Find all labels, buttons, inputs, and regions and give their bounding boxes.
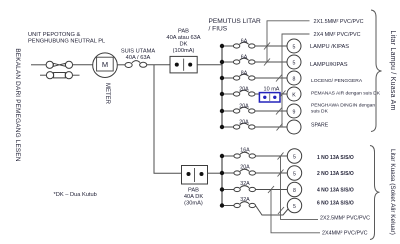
main switch (suis utama)	[125, 61, 147, 68]
svg-text:2 NO 13A S/S/O: 2 NO 13A S/S/O	[317, 171, 354, 177]
svg-text:PENGHUBUNG NEUTRAL PL: PENGHUBUNG NEUTRAL PL	[28, 39, 105, 45]
svg-text:20A: 20A	[239, 104, 249, 110]
branch 2 load circle	[287, 55, 301, 69]
svg-text:32A: 32A	[240, 181, 250, 187]
svg-text:20A: 20A	[239, 120, 249, 126]
svg-text:9: 9	[293, 109, 296, 115]
label: PEMUTUS LITAR / FIUS	[209, 18, 262, 33]
svg-text:LOCENG/ PENGGERA: LOCENG/ PENGGERA	[311, 78, 363, 84]
RCD PAB 30mA	[182, 166, 208, 185]
branch 10 load circle	[287, 198, 301, 212]
branch 7: node dot	[220, 154, 224, 158]
label: PAB 40A DK (30mA)	[184, 188, 203, 207]
upper distribution bus	[221, 46, 223, 127]
wire: incoming neutral	[40, 74, 46, 76]
lower distribution bus	[221, 156, 223, 206]
branch 8 load circle	[287, 166, 301, 180]
svg-text:5: 5	[293, 171, 296, 177]
wire: junction feeder down to lower PAB	[154, 65, 182, 173]
branch 3: node dot	[220, 76, 224, 80]
RCD PAB 100mA	[170, 56, 197, 73]
svg-text:K: K	[292, 92, 296, 98]
label: PAB 40A atau 63A DK (100mA)	[166, 29, 200, 55]
branch 9 MCB 32A	[224, 186, 287, 192]
svg-text:SPARE: SPARE	[311, 123, 329, 129]
leader: 2X2.5MM2 cable (rows 7-8,10)	[278, 153, 319, 220]
branch 3 MCB 8A	[224, 74, 287, 80]
svg-text:6A: 6A	[241, 55, 248, 61]
svg-text:5: 5	[293, 60, 296, 66]
svg-text:5: 5	[293, 44, 296, 50]
leader: 2X4MM2 cable (row 9)	[268, 186, 320, 233]
wire: fuse to meter	[73, 64, 93, 66]
wire: lower PAB to bus	[208, 172, 223, 174]
branch 1: node dot	[220, 44, 224, 48]
wire: incoming live	[31, 64, 46, 66]
svg-text:40A DK: 40A DK	[184, 194, 203, 200]
svg-text:2X2.5MM² PVC/PVC: 2X2.5MM² PVC/PVC	[320, 216, 370, 222]
svg-text:2X4MM² PVC/PVC: 2X4MM² PVC/PVC	[322, 231, 368, 237]
label: UNIT PEPOTONG & PENGHUBUNG NEUTRAL PL	[28, 32, 105, 45]
branch 1 load circle	[287, 39, 301, 53]
svg-text:10 mA: 10 mA	[264, 87, 280, 93]
branch 5 load circle	[287, 104, 301, 118]
svg-text:(30mA): (30mA)	[184, 201, 203, 207]
svg-text:8A: 8A	[241, 71, 248, 77]
branch 2: node dot	[220, 60, 224, 64]
svg-text:/ FIUS: / FIUS	[209, 26, 228, 33]
branch 10: node dot	[220, 203, 224, 207]
branch 9: node dot	[220, 187, 224, 191]
branch 8 MCB 20A	[224, 169, 287, 175]
svg-text:PAB: PAB	[178, 29, 189, 35]
brace: upper group	[371, 10, 382, 132]
svg-text:(100mA): (100mA)	[173, 48, 195, 54]
branch 8: node dot	[220, 171, 224, 175]
svg-text:20A: 20A	[240, 165, 250, 171]
label: SUIS UTAMA 40A / 63A	[121, 49, 156, 62]
branch 5 MCB 20A	[224, 107, 287, 113]
neutral link	[46, 72, 72, 79]
svg-text:PENGHAWA DINGIN dengan: PENGHAWA DINGIN dengan	[311, 103, 375, 109]
wire: switch to PAB	[147, 64, 170, 66]
svg-text:suis DK: suis DK	[311, 109, 329, 115]
branch 4: node dot	[220, 92, 224, 96]
svg-text:6A: 6A	[241, 39, 248, 45]
branch 10 MCB 32A	[224, 202, 256, 208]
svg-text:40A atau 63A: 40A atau 63A	[166, 35, 200, 41]
svg-text:METER: METER	[104, 83, 110, 105]
svg-text:2X4 MM² PVC/PVC: 2X4 MM² PVC/PVC	[314, 32, 361, 38]
branch 2 MCB 6A	[224, 58, 287, 64]
svg-text:SUIS UTAMA: SUIS UTAMA	[121, 49, 156, 55]
svg-text:20A: 20A	[239, 87, 249, 93]
svg-text:32A: 32A	[240, 197, 250, 203]
leader: 2X1.5MM2 cable (rows 1-2)	[264, 21, 310, 66]
svg-text:4 NO 13A S/S/O: 4 NO 13A S/S/O	[317, 188, 354, 194]
branch 3 load circle	[287, 71, 301, 85]
branch 5 label: PENGHAWA DINGIN dengan suis DK	[311, 103, 375, 115]
svg-text:40A / 63A: 40A / 63A	[126, 55, 151, 61]
branch 4 load circle	[287, 87, 301, 101]
branch 5: node dot	[220, 109, 224, 113]
svg-text:PEMANAS AIR dengan suis DK: PEMANAS AIR dengan suis DK	[311, 91, 381, 97]
svg-text:8: 8	[293, 188, 296, 194]
svg-text:6 NO 13A S/S/O: 6 NO 13A S/S/O	[317, 201, 354, 207]
svg-text:LAMPU /KIPAS: LAMPU /KIPAS	[310, 44, 349, 50]
svg-text:LAMPU/KIPAS: LAMPU/KIPAS	[310, 62, 348, 68]
svg-text:1 NO 13A S/S/O: 1 NO 13A S/S/O	[317, 155, 354, 161]
svg-text:UNIT PEPOTONG &: UNIT PEPOTONG &	[28, 32, 80, 38]
branch 6 MCB 20A	[224, 123, 287, 129]
branch 1 MCB 6A	[224, 42, 287, 48]
wire: meter to main switch	[117, 64, 125, 66]
wire: branch 10 jog to load	[256, 206, 289, 216]
svg-text:*DK – Dua Kutub: *DK – Dua Kutub	[54, 192, 97, 198]
svg-text:16A: 16A	[240, 148, 250, 154]
svg-text:BEKALAN DARI PEMEGANG LESEN: BEKALAN DARI PEMEGANG LESEN	[14, 48, 21, 162]
wire: 10mA RCD to load	[280, 93, 287, 95]
svg-text:M: M	[102, 60, 108, 69]
svg-text:5: 5	[293, 204, 296, 210]
meter M	[93, 53, 118, 78]
branch 9 load circle	[287, 182, 301, 196]
brace: lower group	[370, 146, 380, 240]
branch 6 load circle (spare)	[287, 120, 301, 134]
leader: 2X4MM2 cable (rows 3-6)	[276, 34, 310, 131]
wire: neutral stub	[73, 74, 80, 76]
svg-text:Litar Kuasa (Soket Alir Keluar: Litar Kuasa (Soket Alir Keluar)	[389, 149, 396, 235]
svg-text:5: 5	[293, 154, 296, 160]
branch 4 MCB 20A	[224, 90, 259, 96]
branch 6: node dot	[220, 125, 224, 129]
wire: PAB to upper bus	[197, 64, 222, 66]
branch 7 load circle	[287, 149, 301, 163]
svg-text:2X1.5MM² PVC/PVC: 2X1.5MM² PVC/PVC	[314, 19, 364, 25]
svg-text:DK: DK	[180, 42, 188, 48]
RCD 10mA (blue)	[259, 93, 280, 102]
service cutout fuse	[46, 61, 72, 68]
svg-text:PEMUTUS LITAR: PEMUTUS LITAR	[209, 18, 262, 25]
svg-text:8: 8	[293, 76, 296, 82]
svg-text:Litar Lampu / Kuasa Am: Litar Lampu / Kuasa Am	[389, 30, 396, 110]
svg-text:PAB: PAB	[188, 188, 199, 194]
branch 7 MCB 16A	[224, 152, 287, 158]
